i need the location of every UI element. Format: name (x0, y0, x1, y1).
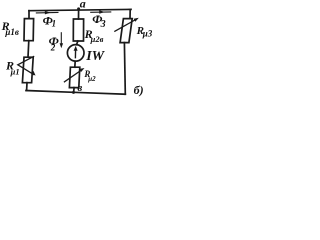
svg-text:IW: IW (85, 49, 105, 64)
svg-text:μ2в: μ2в (90, 34, 104, 44)
svg-text:μ1: μ1 (10, 66, 20, 76)
svg-text:μ3: μ3 (142, 28, 153, 38)
svg-text:μ2: μ2 (87, 75, 96, 83)
svg-text:1: 1 (52, 19, 57, 29)
svg-text:б): б) (134, 83, 144, 97)
svg-text:3: 3 (100, 19, 106, 30)
svg-text:2: 2 (50, 42, 56, 52)
svg-text:в: в (77, 82, 82, 94)
svg-text:μ1в: μ1в (4, 27, 19, 37)
svg-text:a: a (80, 0, 86, 10)
